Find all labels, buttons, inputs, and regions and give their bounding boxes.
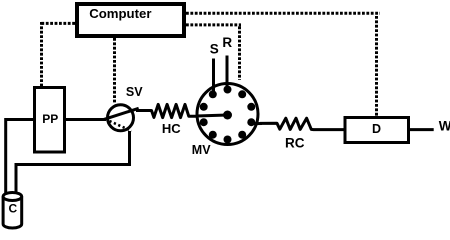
svg-text:W: W bbox=[439, 119, 450, 134]
svg-text:D: D bbox=[372, 122, 381, 136]
svg-text:HC: HC bbox=[162, 121, 181, 136]
svg-text:R: R bbox=[222, 35, 232, 50]
svg-text:S: S bbox=[210, 42, 219, 57]
svg-text:PP: PP bbox=[42, 112, 58, 126]
svg-text:Computer: Computer bbox=[89, 6, 151, 21]
svg-text:RC: RC bbox=[285, 135, 305, 150]
svg-text:C: C bbox=[9, 202, 18, 216]
svg-text:SV: SV bbox=[126, 85, 143, 99]
svg-text:MV: MV bbox=[192, 143, 211, 157]
